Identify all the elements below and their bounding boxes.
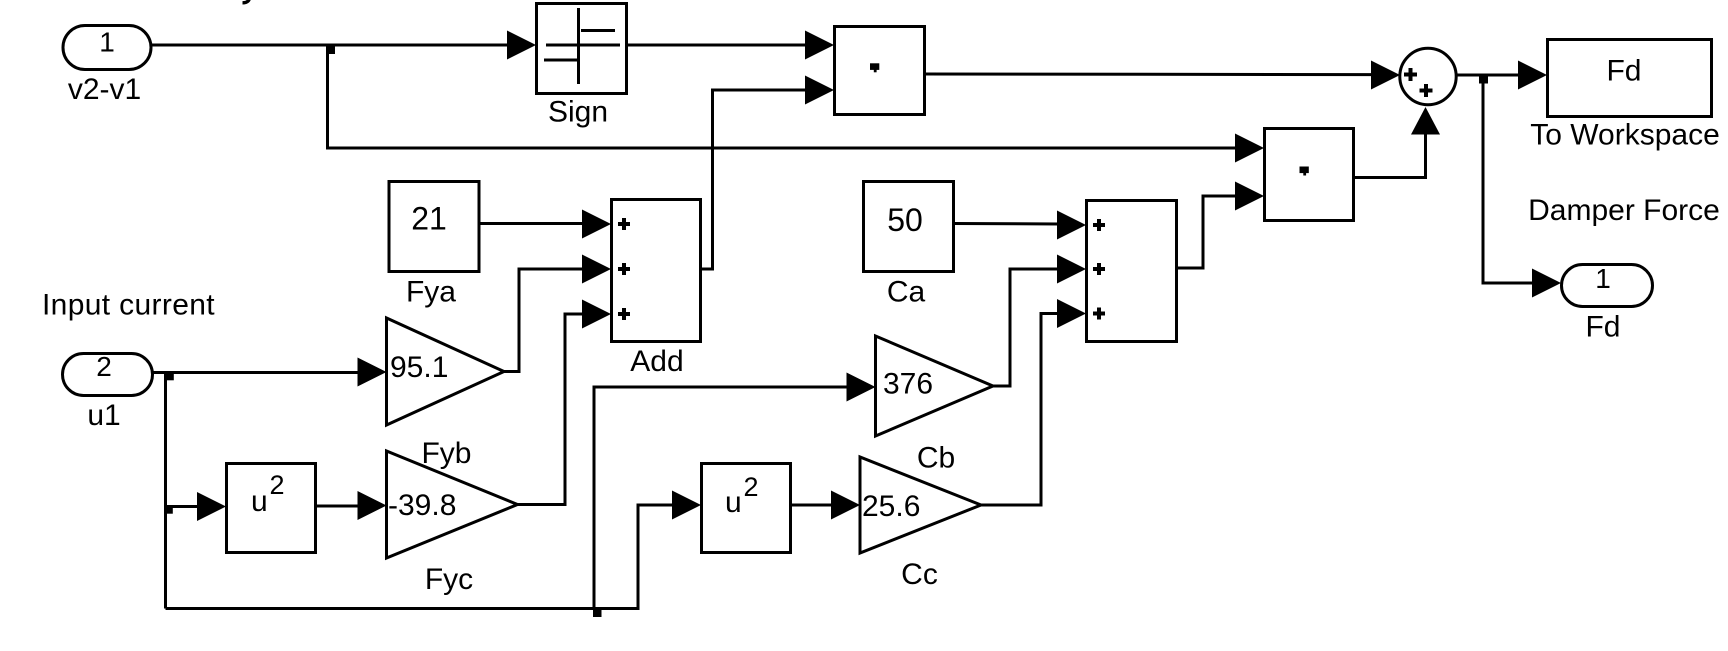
Add block (Add) [612, 200, 701, 379]
wire Sum to To Workspace [1456, 61, 1547, 90]
svg-text:Sign: Sign [548, 96, 608, 129]
svg-text:95.1: 95.1 [390, 351, 448, 384]
wire branch down and long run to Product2 input1 [328, 45, 1265, 163]
node junction on bottom wire [593, 609, 602, 618]
wire u2#1 to gain -39.8 [316, 491, 387, 520]
gain Cb (376) [876, 336, 994, 475]
gain Cc (25.6) [860, 457, 981, 591]
node branch after Sum [1479, 75, 1488, 84]
svg-text:Add: Add [630, 345, 683, 378]
wire Product1 to Sum [925, 61, 1401, 90]
svg-text:Ca: Ca [887, 276, 926, 309]
wire branch down to outport Fd [1483, 75, 1561, 298]
wire 95.1 to Add input2 [503, 269, 585, 372]
svg-text:Fyc: Fyc [425, 563, 473, 596]
svg-text:1: 1 [99, 27, 115, 58]
math function u^2 #1 [227, 464, 316, 553]
cropped annotation descender at top edge [243, 0, 250, 3]
Add2 block [1087, 201, 1177, 342]
svg-text:Cc: Cc [901, 558, 938, 591]
svg-text:376: 376 [883, 368, 933, 401]
svg-text:-39.8: -39.8 [388, 489, 456, 522]
svg-text:u1: u1 [87, 399, 120, 432]
wire port1 to Sign [151, 31, 536, 60]
svg-text:1: 1 [1595, 263, 1611, 294]
svg-text:v2-v1: v2-v1 [68, 73, 141, 106]
wire Product2 output up to Sum [1354, 107, 1441, 178]
wire 376 to Add2 input2 [992, 255, 1086, 387]
node branch on port1 wire [327, 46, 336, 55]
gain Fyc (-39.8) [387, 451, 518, 596]
wire bottom branch up to gain 376 [594, 373, 876, 609]
math function u^2 #2 [702, 464, 791, 553]
sum block (circle) [1400, 48, 1456, 104]
node branch to u2 #1 [165, 506, 173, 514]
svg-text:Damper Force: Damper Force [1528, 194, 1720, 227]
outport 1 (Fd) [1562, 263, 1653, 344]
node branch at port2 [166, 373, 174, 381]
wire Sign to Product1 [627, 31, 834, 60]
constant Fya (21) [389, 182, 479, 309]
svg-text:2: 2 [270, 470, 285, 500]
svg-text:21: 21 [411, 201, 447, 237]
svg-text:2: 2 [744, 472, 759, 502]
Sign block U:Sign [537, 4, 627, 129]
wire 25.6 to Add2 input3 [980, 299, 1086, 505]
svg-text:Fyb: Fyb [421, 437, 471, 470]
wire 50 to Add2 input1 [954, 211, 1087, 240]
wire Add2 output to Product2 input2 [1177, 182, 1265, 269]
wire port2 branch down [164, 373, 167, 609]
svg-text:Fd: Fd [1585, 311, 1620, 344]
gain Fyb (95.1) [387, 318, 505, 470]
To Workspace block (Fd) [1530, 40, 1720, 152]
svg-text:Fya: Fya [406, 276, 456, 309]
wire bottom long run [166, 505, 676, 609]
svg-text:Cb: Cb [917, 442, 955, 475]
wire Add output up to Product1 input2 [701, 76, 835, 270]
svg-text:50: 50 [887, 202, 923, 238]
wire -39.8 to Add input3 [516, 314, 585, 505]
svg-text:To Workspace: To Workspace [1530, 119, 1720, 152]
svg-text:u: u [725, 486, 742, 519]
wire branch to u2 #1 [166, 492, 227, 521]
svg-text:u: u [251, 485, 268, 518]
product block P2 [1265, 129, 1354, 221]
inport 2 (u1) [63, 351, 153, 432]
svg-text:25.6: 25.6 [862, 490, 920, 523]
wire 21 to Add input1 [479, 210, 611, 239]
product block P1 (top) [835, 27, 925, 115]
svg-text:Input current: Input current [42, 289, 215, 322]
inport 1 (v2-v1) [63, 26, 151, 107]
wire port2 to gain 95.1 [153, 358, 387, 387]
constant Ca (50) [864, 182, 954, 309]
svg-text:Fd: Fd [1606, 55, 1641, 88]
svg-text:2: 2 [96, 351, 112, 382]
wire u2#2 to gain 25.6 [791, 491, 861, 520]
